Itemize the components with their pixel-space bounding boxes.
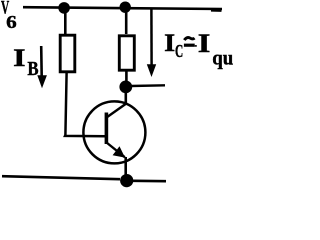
svg-text:C: C bbox=[175, 41, 183, 61]
svg-text:6: 6 bbox=[6, 12, 17, 32]
svg-text:I: I bbox=[198, 29, 211, 58]
svg-text:B: B bbox=[27, 59, 38, 80]
svg-text:I: I bbox=[13, 45, 25, 72]
svg-text:qu: qu bbox=[212, 47, 233, 69]
svg-text:I: I bbox=[164, 30, 175, 57]
